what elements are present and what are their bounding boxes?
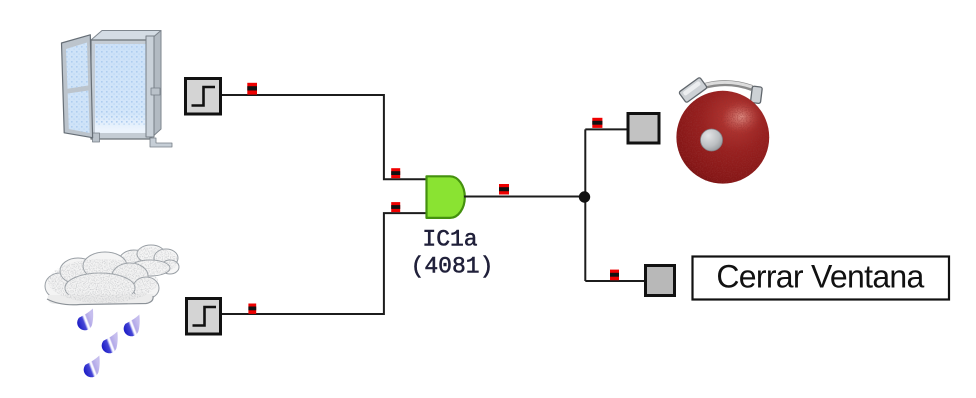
input switch S1 (window sensor) (186, 79, 221, 115)
window top face (91, 31, 161, 41)
wire to window-closer output block (585, 280, 645, 282)
indicator on gate bottom input (391, 202, 400, 212)
bell dome speckle (676, 91, 769, 184)
window latch (151, 88, 160, 95)
window main glass pane (95, 44, 146, 133)
AND gate IC1a (427, 176, 465, 218)
output wire from gate to junction (464, 196, 586, 198)
casement upper glass (66, 43, 88, 89)
bell boss (701, 129, 723, 151)
window open casement frame (62, 35, 93, 138)
casement lower glass (68, 91, 90, 134)
indicator on window-closer branch (610, 270, 619, 281)
rain cloud image (45, 245, 179, 377)
output block B2 (window closer) (646, 266, 675, 296)
bell hammer left piece (679, 77, 708, 103)
indicator on S2 output wire (248, 304, 256, 314)
bell hammer arc (703, 83, 752, 88)
S1 step symbol (192, 87, 216, 106)
input switch S2 (rain sensor) (187, 299, 221, 335)
trunk wire vertical (584, 129, 586, 281)
window left leg (93, 133, 100, 142)
bell dome (676, 91, 769, 184)
svg-text:(4081): (4081) (411, 254, 494, 280)
small upper cloud (119, 245, 179, 276)
wire from S2 to gate bottom input (222, 213, 426, 314)
window right side face (150, 31, 161, 140)
window image (open window, light blue glass) (62, 31, 173, 148)
indicator on gate output (499, 184, 509, 195)
raindrop 4 (84, 356, 100, 378)
bell hammer right piece (750, 86, 762, 104)
wire from S1 to gate top input (222, 95, 426, 179)
label box Cerrar Ventana (693, 257, 950, 300)
indicator on gate top input (391, 168, 400, 178)
indicator on S1 output wire (247, 83, 257, 95)
window right column (146, 36, 154, 137)
wire to bell output block (585, 128, 628, 130)
window main frame front (91, 40, 150, 139)
bell highlight (721, 99, 763, 135)
svg-text:IC1a: IC1a (422, 227, 477, 253)
svg-text:Cerrar Ventana: Cerrar Ventana (716, 259, 924, 295)
raindrop 1 (77, 309, 93, 331)
bell image (676, 77, 769, 183)
indicator on bell branch (592, 118, 602, 128)
window right foot (150, 138, 172, 147)
cloud texture (48, 247, 178, 303)
output block B1 (bell driver) (628, 114, 659, 144)
raindrop 2 (124, 315, 140, 337)
junction (579, 191, 590, 202)
raindrop 3 (102, 332, 118, 354)
S2 step symbol (193, 307, 217, 326)
main cloud (45, 252, 159, 305)
